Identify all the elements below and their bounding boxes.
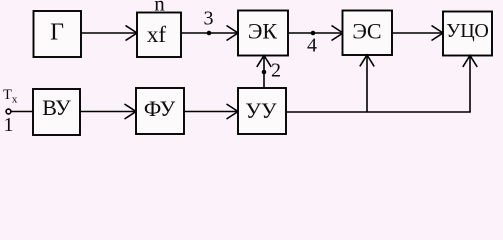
svg-text:4: 4 bbox=[307, 35, 317, 57]
arrowhead into xf bbox=[126, 26, 138, 41]
svg-text:ЭК: ЭК bbox=[248, 19, 278, 44]
svg-text:УЦО: УЦО bbox=[446, 20, 489, 42]
svg-text:1: 1 bbox=[4, 114, 14, 136]
wire VU to FU bbox=[80, 111, 135, 113]
svg-text:ВУ: ВУ bbox=[42, 95, 71, 120]
arrowhead into ES bbox=[332, 26, 344, 41]
block G (generator) bbox=[34, 11, 82, 57]
wire G to xf bbox=[81, 32, 136, 34]
arrowhead into EK bottom bbox=[257, 56, 271, 67]
wire FU to UU bbox=[184, 111, 237, 113]
wire branch up to UCO bbox=[469, 56, 471, 112]
arrowhead into EK bbox=[227, 26, 239, 41]
wire EK to ES bbox=[288, 32, 341, 34]
arrowhead into ES bottom bbox=[360, 55, 374, 66]
junction node 3 dot bbox=[207, 31, 212, 36]
wire UU up to EK bbox=[263, 56, 265, 88]
arrowhead into UCO bottom bbox=[463, 56, 477, 67]
svg-text:3: 3 bbox=[204, 8, 214, 30]
wire ES to UCO bbox=[392, 32, 442, 34]
wire UU right horizontal bus bbox=[286, 111, 471, 113]
svg-text:УУ: УУ bbox=[245, 98, 277, 123]
svg-text:n: n bbox=[154, 0, 165, 16]
svg-text:ФУ: ФУ bbox=[144, 96, 176, 121]
svg-text:xf: xf bbox=[147, 22, 167, 47]
wire Tx to VU bbox=[11, 111, 33, 113]
svg-text:ЭС: ЭС bbox=[352, 19, 381, 44]
arrowhead into FU bbox=[125, 104, 137, 119]
block ES bbox=[343, 11, 393, 56]
arrowhead into UU bbox=[227, 104, 239, 119]
junction node 4 dot bbox=[311, 31, 316, 36]
input terminal Tx bbox=[6, 109, 11, 114]
block UCO bbox=[443, 12, 492, 56]
arrowhead into UCO bbox=[432, 26, 444, 41]
block xf (frequency multiplier) bbox=[137, 13, 181, 58]
block FU (forming device) bbox=[136, 88, 184, 134]
block VU (input device) bbox=[33, 89, 80, 135]
svg-text:2: 2 bbox=[271, 60, 281, 82]
wire xf to EK bbox=[181, 32, 237, 34]
svg-text:Г: Г bbox=[50, 20, 64, 46]
junction node 2 dot bbox=[262, 70, 267, 75]
wire branch up to ES bbox=[366, 56, 368, 113]
block EK bbox=[238, 11, 288, 56]
block UU (control device) bbox=[238, 88, 286, 134]
